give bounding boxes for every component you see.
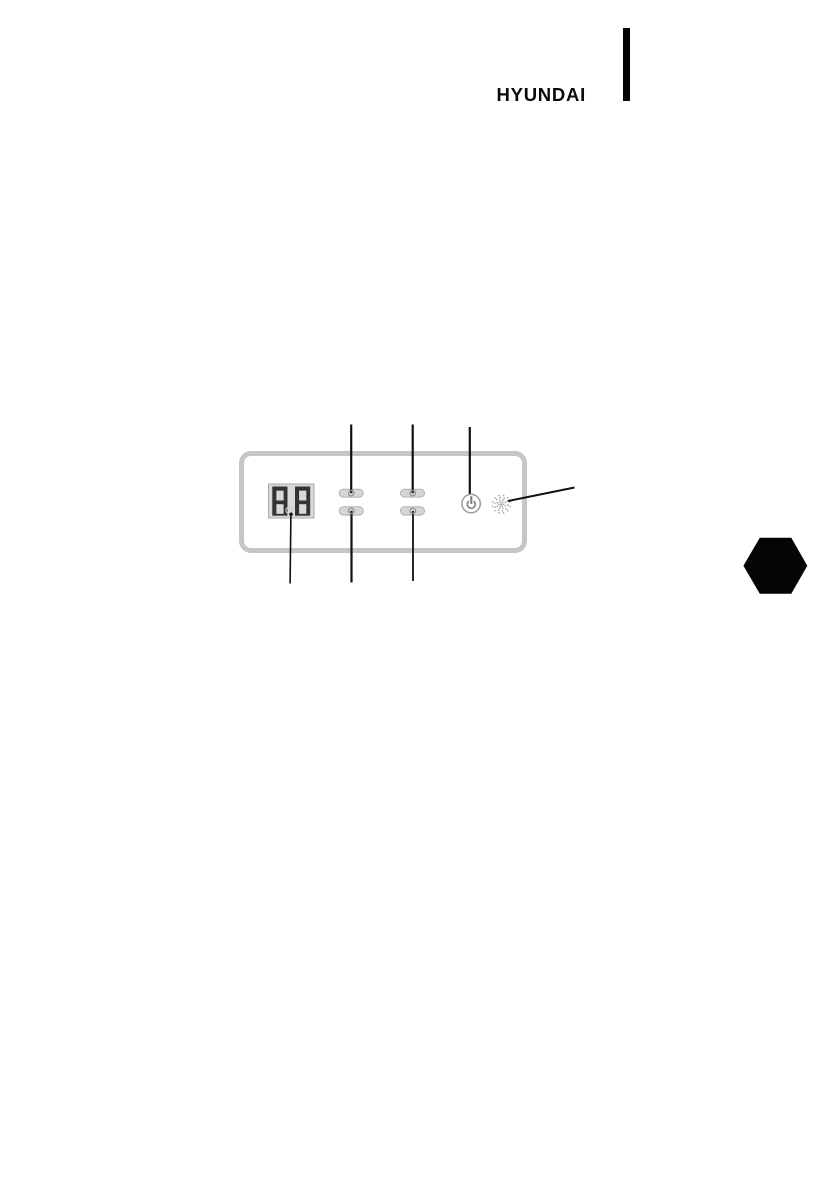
small indicator circle on display bbox=[286, 507, 293, 514]
callout line down from display bbox=[289, 514, 292, 583]
LED ring pair2 top bbox=[410, 490, 415, 495]
callout line bottom 2 bbox=[350, 511, 352, 583]
callout line top 2 bbox=[412, 425, 414, 494]
callout line top 3 bbox=[469, 427, 471, 496]
callout line top 1 bbox=[350, 425, 352, 494]
black hexagon page marker bbox=[743, 538, 807, 594]
digit 8 left bbox=[272, 487, 287, 516]
callout dot on display bbox=[289, 513, 293, 517]
LED ring pair1 bottom bbox=[349, 508, 354, 513]
digit 8 right bbox=[295, 487, 310, 516]
svg-text:HYUNDAI: HYUNDAI bbox=[497, 84, 587, 105]
defrost dotted icon bbox=[492, 495, 511, 514]
black vertical bar top right bbox=[623, 28, 630, 101]
power button bbox=[462, 494, 480, 512]
LED pill pair1 top bbox=[339, 489, 363, 497]
LED pill pair2 bottom bbox=[401, 507, 425, 515]
LED ring pair2 bottom bbox=[410, 508, 415, 513]
control panel outline bbox=[242, 454, 525, 551]
callout line from defrost icon bbox=[508, 488, 575, 502]
display bezel bbox=[269, 484, 315, 518]
LED pill pair1 bottom bbox=[339, 507, 363, 515]
LED pill pair2 top bbox=[401, 489, 425, 497]
callout line bottom 3 bbox=[412, 511, 414, 581]
LED ring pair1 top bbox=[349, 490, 354, 495]
